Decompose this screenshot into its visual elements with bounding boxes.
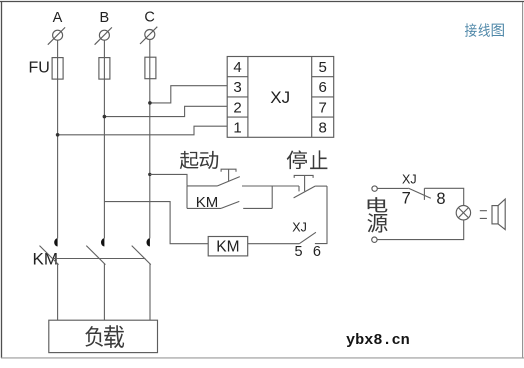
label 电源 (power source) [367, 197, 387, 232]
label XJ (contact 7-8) [402, 172, 417, 186]
wire start to stop button [242, 185, 299, 187]
wire power top to contact XJ 7 [377, 187, 408, 189]
wire contact XJ 8 to lamp [424, 188, 463, 205]
lamp HL (indicator) [456, 206, 470, 220]
pin label 7 [402, 189, 411, 207]
wire phase B tap to coil KM [104, 202, 208, 244]
coil KM [208, 237, 248, 256]
pin 3 of relay XJ [233, 79, 241, 96]
svg-text:2: 2 [233, 99, 241, 116]
wire stop to contact XJ 5-6 [315, 186, 327, 244]
pin 8 of relay XJ [319, 120, 327, 137]
wire phase A vertical [57, 40, 59, 238]
pin label 8 [436, 190, 445, 208]
label 起动 (start) [180, 151, 218, 169]
node B (phase B label) [99, 10, 109, 26]
pin 5 of relay XJ [319, 59, 327, 76]
contact KM main phase A [40, 238, 59, 264]
contact XJ 5-6 (NO) [299, 232, 316, 243]
svg-text:XJ: XJ [292, 221, 307, 235]
svg-text:8: 8 [436, 190, 445, 208]
wire phase B vertical [103, 40, 105, 238]
svg-text:5: 5 [319, 59, 327, 76]
pushbutton SB1 start (NO) [187, 169, 240, 186]
label 接线图 (wiring diagram title) [465, 23, 504, 37]
load box 负载 [49, 320, 158, 352]
svg-text:1: 1 [233, 120, 241, 137]
contact KM main phase B [86, 238, 105, 264]
pushbutton SB2 stop (NC) [294, 175, 327, 198]
svg-text:7: 7 [319, 99, 327, 116]
fuse FU phase C [145, 57, 156, 78]
fuse FU phase B [99, 58, 110, 80]
wire coil KM to contact XJ 5 [248, 243, 300, 245]
svg-text:6: 6 [313, 244, 321, 260]
pin label 6 [313, 244, 321, 260]
svg-text:7: 7 [402, 189, 411, 207]
pin 6 of relay XJ [319, 79, 327, 96]
junction phase B / pin 2 [103, 115, 107, 119]
svg-text:KM: KM [216, 238, 239, 255]
svg-text:XJ: XJ [402, 172, 417, 186]
wire XJ pin 3 to phase C [150, 86, 227, 103]
svg-text:3: 3 [233, 79, 241, 96]
svg-text:5: 5 [295, 244, 303, 260]
pin 4 of relay XJ [233, 59, 241, 76]
terminal B (circle with slash) [95, 27, 112, 44]
svg-text:B: B [99, 10, 109, 26]
terminal A (circle with slash) [48, 27, 65, 44]
svg-text:4: 4 [233, 59, 241, 76]
svg-text:A: A [53, 10, 63, 26]
watermark ybx8.cn [346, 331, 410, 349]
terminal power + (top circle) [372, 186, 377, 191]
junction phase C / control tap [148, 173, 151, 176]
label XJ (contact 5-6) [292, 221, 307, 235]
svg-text:C: C [144, 10, 154, 26]
node C (phase C label) [144, 10, 154, 26]
fuse FU phase A [52, 58, 63, 80]
pin label 5 [295, 244, 303, 260]
junction phase C / pin 3 [148, 101, 152, 105]
label 停止 (stop) [287, 150, 328, 169]
svg-text:6: 6 [319, 79, 327, 96]
speaker / buzzer HA [480, 199, 505, 230]
node A (phase A label) [53, 10, 63, 26]
label KM (auxiliary contact) [196, 194, 219, 211]
contact KM auxiliary (NO, parallel with SB1) [187, 186, 272, 209]
junction phase A / pin 1 [56, 133, 60, 137]
svg-text:XJ: XJ [270, 88, 290, 107]
wire XJ pin 2 to phase B [105, 106, 227, 116]
terminal power - (bottom circle) [372, 237, 377, 242]
wire lamp to power bottom [377, 220, 464, 240]
contact XJ 7-8 (NC) [408, 188, 431, 200]
linkage bar of KM main contacts [53, 258, 145, 260]
svg-text:FU: FU [29, 60, 50, 77]
wire phase A to load [57, 264, 59, 321]
wire XJ pin 1 to phase A [58, 126, 227, 135]
pin 2 of relay XJ [233, 99, 241, 116]
terminal C (circle with slash) [140, 27, 157, 44]
wire phase B to load [103, 264, 105, 321]
pin 1 of relay XJ [233, 120, 241, 137]
relay XJ terminal block [227, 57, 334, 138]
pin 7 of relay XJ [319, 99, 327, 116]
label KM (main contacts) [33, 249, 59, 268]
label FU [29, 60, 50, 77]
contact KM main phase C [132, 238, 151, 264]
wire phase C vertical [149, 40, 151, 239]
svg-text:8: 8 [319, 120, 327, 137]
svg-text:ybx8.cn: ybx8.cn [346, 331, 410, 349]
wire phase C to load [149, 264, 151, 321]
wire control tap C to start button [150, 174, 187, 186]
